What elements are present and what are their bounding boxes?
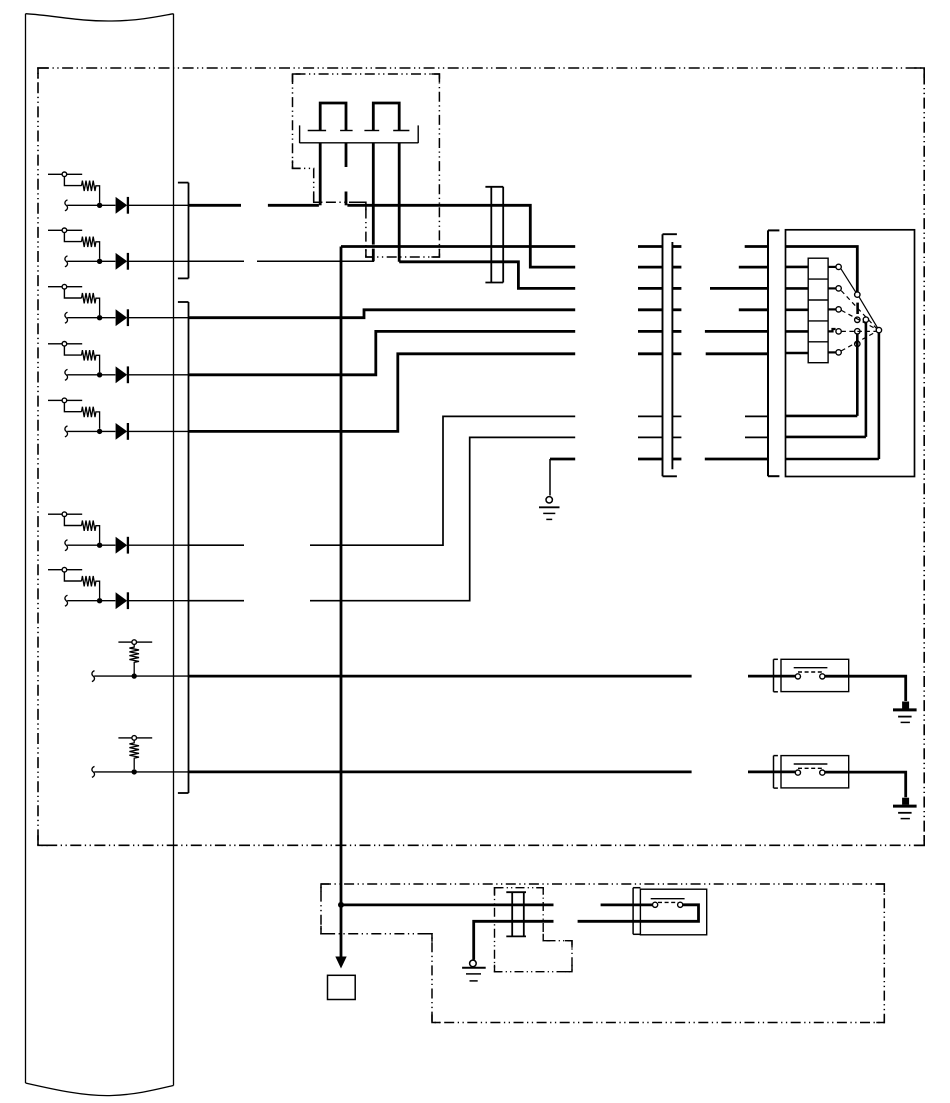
wire trunk to terminal arrow xyxy=(335,905,346,969)
fuse block dash-dot boundary xyxy=(293,74,440,257)
wire row 7 to connector xyxy=(129,600,189,602)
connector J4 (bottom in-line) xyxy=(506,892,526,936)
wire break squiggle row 3 xyxy=(65,312,68,323)
wire row 1 to connector xyxy=(129,204,189,206)
resistor R5 xyxy=(82,407,100,429)
wire row 3 rail xyxy=(67,317,115,319)
terminal box A xyxy=(328,975,356,999)
switch S5 xyxy=(48,398,82,412)
main border corner marks xyxy=(38,68,924,845)
connector bracket J2 (rows 3-9) xyxy=(178,302,189,793)
switch S4 xyxy=(48,342,82,356)
diode D5 xyxy=(116,423,128,440)
resistor R1 xyxy=(82,181,100,203)
ground G2 xyxy=(893,702,917,723)
node row 8 junction xyxy=(132,673,137,678)
switch contact block xyxy=(808,258,828,363)
diode D7 xyxy=(116,592,128,609)
wire break squiggle row 8 xyxy=(92,671,95,682)
fuse F2 lead left xyxy=(372,143,375,261)
wire break squiggle row 1 xyxy=(65,200,68,211)
connector bar C1 xyxy=(663,234,677,476)
switch S7 xyxy=(48,567,82,581)
wire row 7 rail xyxy=(67,600,115,602)
switch S9 xyxy=(118,736,152,741)
wire break squiggle row 5 xyxy=(65,426,68,437)
node row 3 junction xyxy=(97,315,102,320)
fuse boundary corner marks xyxy=(293,74,440,257)
wire pole 2 return xyxy=(786,322,866,437)
connector J3 (in-line) xyxy=(485,187,503,283)
relay K1 housing xyxy=(781,659,849,691)
wire row 2 to connector xyxy=(129,260,189,262)
diode D4 xyxy=(116,366,128,383)
main system dash-dot border xyxy=(38,68,924,845)
relay K2 housing xyxy=(781,756,849,788)
switch S8 xyxy=(118,640,152,645)
bottom unit dash-dot boundary xyxy=(321,884,884,1023)
bottom connector dash-dot boundary xyxy=(495,888,573,972)
wire from F2 to connector xyxy=(399,262,768,289)
diode D3 xyxy=(116,309,128,326)
wire bottom feed xyxy=(341,904,653,907)
wire trunk vertical xyxy=(340,247,343,905)
node row 4 junction xyxy=(97,372,102,377)
wire K3 return xyxy=(474,905,699,960)
wire row 4 xyxy=(189,331,768,374)
wire ground branch xyxy=(550,458,768,461)
connector bracket J1 (rows 1-2) xyxy=(178,183,189,279)
bottom connector boundary corner marks xyxy=(495,888,573,972)
switch S3 xyxy=(48,284,82,298)
switch S2 xyxy=(48,228,82,242)
wire row 7 xyxy=(189,437,768,600)
diode D2 xyxy=(116,253,128,270)
switch throw lines dashed xyxy=(841,291,876,351)
wire row 6 rail xyxy=(67,544,115,546)
fuse F1 lead left xyxy=(319,143,322,206)
relay K1 bracket xyxy=(774,659,778,692)
wire row 4 to connector xyxy=(129,374,189,376)
resistor R6 xyxy=(82,521,100,543)
ground G1 xyxy=(539,459,560,519)
wire row 1 (fused feed) xyxy=(189,205,768,267)
wire row 9 rail xyxy=(94,771,189,773)
relay K3 contacts xyxy=(651,899,685,908)
wire row 3 to connector xyxy=(129,317,189,319)
resistor R9 xyxy=(129,740,139,769)
resistor R8 xyxy=(129,644,139,673)
wire row 3 xyxy=(189,310,768,318)
wire break squiggle row 9 xyxy=(92,766,95,777)
relay K2 contacts xyxy=(794,764,828,775)
wire row 2 xyxy=(189,260,374,262)
resistor R2 xyxy=(82,237,100,259)
wire row 6 xyxy=(189,416,768,545)
bottom boundary corner marks xyxy=(321,884,884,1023)
ground G4 xyxy=(462,960,486,981)
wire row 4 rail xyxy=(67,374,115,376)
wire row 5 xyxy=(189,354,768,432)
node trunk junction xyxy=(338,902,344,908)
switch S1 xyxy=(48,172,82,186)
wire row 2 rail xyxy=(67,260,115,262)
node row 1 junction xyxy=(97,203,102,208)
wire row 5 rail xyxy=(67,430,115,432)
wire K2 to ground xyxy=(825,772,906,797)
node row 5 junction xyxy=(97,429,102,434)
wire feed inside unit xyxy=(786,247,857,292)
fuse F1 lead right xyxy=(345,143,348,206)
switch S6 xyxy=(48,512,82,526)
fusible link F1 xyxy=(320,103,346,131)
relay K2 bracket xyxy=(774,756,778,789)
resistor R3 xyxy=(82,293,100,315)
wire row 8 xyxy=(189,675,795,678)
wire break squiggle row 7 xyxy=(65,595,68,606)
fuse F2 lead right xyxy=(398,143,401,262)
wire break squiggle row 2 xyxy=(65,256,68,267)
switch throw lines solid xyxy=(841,269,878,328)
diode D6 xyxy=(116,537,128,554)
node row 2 junction xyxy=(97,259,102,264)
wire pole 3 return xyxy=(786,333,879,459)
wire K1 to ground xyxy=(825,676,906,701)
relay K1 contacts xyxy=(794,668,828,679)
switch poles circles xyxy=(855,292,882,347)
relay K3 housing xyxy=(640,889,706,935)
node row 7 junction xyxy=(97,598,102,603)
switch unit housing U1 xyxy=(786,230,915,477)
wire row 5 to connector xyxy=(129,430,189,432)
wire row 9 xyxy=(189,771,795,774)
diode D1 xyxy=(116,197,128,214)
contact pins with terminals xyxy=(828,267,836,353)
torn page band (left continuation strip) xyxy=(26,14,174,1096)
fusible link F2 xyxy=(373,103,399,131)
wire pole 1 return xyxy=(786,334,857,416)
wire row 6 to connector xyxy=(129,544,189,546)
wire break squiggle row 6 xyxy=(65,540,68,551)
wire stubs into contact block xyxy=(786,267,808,353)
wire row 8 rail xyxy=(94,675,189,677)
resistor R4 xyxy=(82,350,100,372)
fuse holder block xyxy=(300,125,419,143)
connector bracket C2 xyxy=(768,230,779,476)
switch blade segment xyxy=(856,303,859,314)
node row 6 junction xyxy=(97,543,102,548)
relay K3 bracket xyxy=(633,888,640,935)
ground G3 xyxy=(893,798,917,819)
wire main feed trunk horizontal xyxy=(341,245,768,248)
terminal circles T1-T5 xyxy=(836,264,841,355)
resistor R7 xyxy=(82,576,100,598)
wire break squiggle row 4 xyxy=(65,369,68,380)
wire row 1 rail xyxy=(67,204,115,206)
node row 9 junction xyxy=(132,769,137,774)
